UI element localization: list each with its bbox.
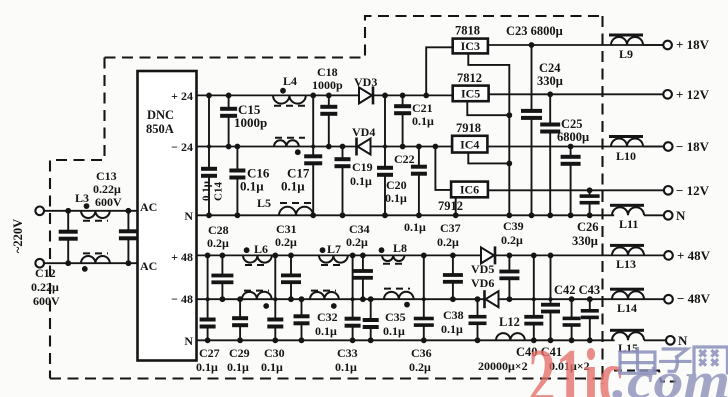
svg-text:C13: C13	[96, 169, 117, 183]
label 7812	[457, 71, 482, 85]
capacitor C33	[345, 253, 361, 344]
svg-text:C24: C24	[539, 61, 561, 75]
svg-text:C12: C12	[35, 266, 56, 280]
label L4	[283, 74, 297, 88]
svg-text:N: N	[184, 334, 193, 348]
pin label N bottom	[184, 334, 193, 348]
label C35	[383, 310, 406, 338]
terminal +18V	[663, 41, 672, 50]
label C40 C41	[516, 345, 562, 359]
label L3	[75, 191, 89, 205]
label L7	[327, 242, 341, 256]
svg-text:VD6: VD6	[471, 276, 494, 290]
svg-text:0.1μ: 0.1μ	[385, 191, 407, 205]
svg-text:7812: 7812	[457, 71, 482, 85]
svg-text:C38: C38	[443, 308, 464, 322]
capacitor C41	[541, 253, 560, 344]
svg-text:C31: C31	[276, 222, 297, 236]
svg-text:VD3: VD3	[354, 75, 377, 89]
label L6	[254, 242, 268, 256]
capacitor C31	[281, 253, 301, 303]
svg-text:C18: C18	[317, 65, 338, 79]
label 7918	[456, 121, 481, 135]
terminal -18V	[664, 142, 673, 151]
label C26	[572, 220, 599, 248]
svg-text:C23 6800μ: C23 6800μ	[506, 24, 563, 38]
svg-text:0.1μ: 0.1μ	[196, 360, 218, 374]
wire IC5 ground	[467, 101, 512, 118]
terminal -12V	[664, 186, 673, 195]
capacitor C19	[335, 144, 351, 219]
wire +48 rail	[197, 254, 664, 256]
pin label -48	[171, 292, 193, 306]
wire N bottom rail	[197, 339, 615, 341]
svg-text:C25: C25	[561, 117, 583, 131]
svg-text:VD4: VD4	[352, 125, 375, 139]
svg-text:330μ: 330μ	[572, 234, 598, 248]
svg-text:C35: C35	[385, 310, 406, 324]
pin label AC upper	[140, 200, 157, 214]
label C36	[409, 346, 432, 374]
svg-text:600V: 600V	[95, 195, 122, 209]
svg-text:C37: C37	[440, 221, 461, 235]
svg-text:− 18V: − 18V	[676, 139, 710, 154]
label VD4	[352, 125, 375, 139]
label VD3	[354, 75, 377, 89]
label C38	[441, 308, 464, 336]
svg-text:N: N	[676, 208, 686, 223]
label 7912	[438, 199, 463, 213]
svg-text:0.2μ: 0.2μ	[207, 236, 229, 250]
svg-text:0.2μ: 0.2μ	[437, 235, 459, 249]
svg-text:L6: L6	[254, 242, 268, 256]
label N mid	[676, 208, 686, 223]
label N bottom	[678, 333, 688, 348]
svg-text:C42 C43: C42 C43	[554, 283, 600, 297]
label C16	[240, 166, 270, 194]
capacitor C38	[469, 296, 487, 343]
label VD6	[471, 276, 494, 290]
svg-text:IC5: IC5	[461, 87, 480, 101]
wire N mid rail	[197, 214, 615, 216]
wire -24 rail	[197, 146, 453, 148]
label C31	[275, 222, 297, 249]
module DNC 850A box	[138, 71, 197, 361]
capacitor C35	[363, 296, 379, 343]
svg-text:1000p: 1000p	[234, 115, 267, 130]
svg-text:N: N	[184, 209, 193, 223]
label -48V	[677, 291, 711, 306]
capacitor C39	[499, 253, 519, 303]
svg-text:0.1μ: 0.1μ	[227, 360, 249, 374]
wire IC6 input	[433, 144, 452, 190]
label C32	[315, 310, 338, 338]
svg-text:C36: C36	[411, 346, 432, 360]
svg-text:C27: C27	[199, 346, 220, 360]
capacitor C21	[394, 93, 411, 150]
inductor L5 on N rail	[279, 203, 313, 215]
shield enclosure dashed border (left/input section)	[50, 58, 105, 379]
label C25	[557, 117, 589, 144]
svg-text:L8: L8	[393, 241, 407, 255]
svg-text:AC: AC	[140, 259, 157, 273]
wire +24 rail	[197, 94, 453, 96]
capacitor C14	[201, 93, 217, 219]
capacitor C29	[232, 296, 248, 343]
wire AC lower	[44, 262, 138, 264]
svg-text:0.22μ: 0.22μ	[31, 280, 59, 294]
shield enclosure dashed border (bottom edge)	[50, 377, 605, 379]
label ~220V	[11, 219, 25, 253]
svg-text:0.2μ: 0.2μ	[346, 235, 368, 249]
svg-text:C21: C21	[412, 101, 433, 115]
svg-text:0.2μ: 0.2μ	[501, 233, 523, 247]
label C33	[335, 346, 358, 374]
label 7818	[455, 24, 480, 38]
inductor L10	[609, 135, 643, 163]
choke L7 lower winding	[310, 291, 339, 309]
svg-text:0.1μ: 0.1μ	[350, 174, 372, 188]
wire IC4 ground	[468, 153, 512, 167]
choke L3 upper winding	[81, 203, 110, 221]
op-amp-regulator IC4 7918	[452, 136, 487, 153]
capacitor C12	[59, 208, 78, 266]
inductor L14	[610, 288, 644, 315]
svg-text:C32: C32	[317, 310, 338, 324]
label C12 value	[31, 266, 60, 308]
watermark 21ic.com	[528, 334, 728, 397]
svg-text:7912: 7912	[438, 199, 463, 213]
label L8	[393, 241, 407, 255]
svg-text:IC3: IC3	[461, 39, 480, 53]
svg-text:L14: L14	[617, 301, 637, 315]
inductor L11	[610, 204, 644, 231]
svg-text:IC4: IC4	[460, 137, 479, 151]
svg-text:C34: C34	[349, 222, 370, 236]
svg-text:0.1μ: 0.1μ	[261, 360, 283, 374]
wire +12V line	[489, 93, 664, 95]
label VD5	[471, 262, 494, 276]
label -18V	[676, 139, 710, 154]
inductor L12 on N rail	[496, 333, 525, 340]
svg-text:− 12V: − 12V	[676, 183, 710, 198]
label C29	[227, 346, 250, 374]
terminal N bottom	[666, 336, 675, 345]
op-amp-regulator IC5 7812	[453, 86, 489, 102]
svg-text:.com: .com	[612, 353, 728, 397]
svg-text:C28: C28	[208, 223, 229, 237]
pin label AC lower	[140, 259, 157, 273]
diode VD4	[357, 138, 371, 156]
diode VD6	[485, 290, 499, 308]
svg-text:0.1μ: 0.1μ	[412, 114, 434, 128]
label C39	[501, 219, 524, 247]
svg-text:L13: L13	[616, 257, 636, 271]
label C19	[350, 160, 373, 188]
svg-text:7918: 7918	[456, 121, 481, 135]
svg-text:L4: L4	[283, 74, 297, 88]
label C13 value	[93, 169, 122, 209]
label C21	[412, 101, 434, 128]
svg-text:+ 24: + 24	[171, 89, 193, 103]
terminal +12V	[663, 90, 672, 99]
label C22	[394, 152, 426, 234]
svg-text:7818: 7818	[455, 24, 480, 38]
terminal +48V	[664, 251, 673, 260]
wire IC3 ground	[468, 53, 512, 218]
svg-text:1000p: 1000p	[312, 78, 343, 92]
svg-text:L3: L3	[75, 191, 89, 205]
svg-text:0.1μ: 0.1μ	[404, 220, 426, 234]
svg-text:+ 12V: + 12V	[676, 87, 710, 102]
svg-text:C14: C14	[213, 182, 225, 201]
pin label N mid	[184, 209, 193, 223]
svg-text:− 48: − 48	[171, 292, 193, 306]
capacitor C34	[353, 253, 373, 303]
svg-text:C30: C30	[264, 346, 285, 360]
label C17	[281, 166, 310, 194]
svg-text:L9: L9	[619, 47, 633, 61]
terminal ~220V line input lower	[35, 259, 44, 268]
capacitor C23	[521, 42, 542, 218]
svg-text:L7: L7	[327, 242, 341, 256]
label +48V	[677, 248, 711, 263]
svg-text:20000μ×2: 20000μ×2	[478, 359, 528, 373]
svg-text:0.1μ: 0.1μ	[383, 324, 405, 338]
diode VD5	[481, 246, 495, 264]
capacitor C28	[211, 253, 233, 303]
inductor L15	[610, 329, 644, 355]
capacitor C43	[581, 296, 599, 343]
svg-text:+ 48: + 48	[171, 250, 193, 264]
label C30	[261, 346, 285, 374]
capacitor C13	[119, 208, 138, 266]
choke L7 upper winding	[319, 247, 348, 265]
svg-text:C26: C26	[577, 220, 599, 234]
inductor L13	[610, 244, 644, 271]
choke L4 lower winding	[274, 138, 305, 155]
svg-text:IC6: IC6	[460, 183, 479, 197]
label C28	[207, 223, 229, 250]
wire L10 to terminal	[643, 146, 664, 148]
svg-text:21ic: 21ic	[528, 334, 623, 397]
choke L6 lower winding	[242, 291, 272, 309]
capacitor C32	[294, 296, 310, 343]
choke L4 upper winding	[273, 88, 306, 106]
capacitor C30	[267, 253, 283, 344]
capacitor C16	[229, 144, 245, 219]
capacitor C42	[563, 296, 581, 343]
shield enclosure dashed border (right edge)	[601, 16, 603, 384]
svg-text:C29: C29	[229, 346, 250, 360]
svg-text:VD5: VD5	[471, 262, 494, 276]
svg-text:6800μ: 6800μ	[557, 130, 589, 144]
capacitor C18	[320, 93, 337, 150]
svg-text:+ 18V: + 18V	[676, 37, 710, 52]
label C14 vertical	[201, 180, 225, 201]
svg-text:C19: C19	[352, 160, 373, 174]
svg-text:0.2μ: 0.2μ	[409, 360, 431, 374]
inductor L9	[609, 34, 643, 62]
label C34	[346, 222, 370, 249]
op-amp-regulator IC6 7912	[451, 182, 488, 198]
choke L3 lower winding	[81, 253, 110, 271]
capacitor C20	[377, 93, 393, 219]
svg-text:AC: AC	[140, 200, 157, 214]
svg-text:L10: L10	[616, 149, 636, 163]
svg-text:C20: C20	[386, 178, 407, 192]
wire L9 to terminal	[643, 44, 663, 46]
svg-text:L12: L12	[499, 315, 520, 329]
svg-text:~220V: ~220V	[11, 219, 25, 253]
label -12V	[676, 183, 710, 198]
label C42 C43	[554, 283, 600, 297]
svg-text:L11: L11	[619, 217, 638, 231]
choke L8 upper winding	[379, 247, 405, 263]
svg-text:0.1μ: 0.1μ	[240, 179, 264, 194]
wire -12V line	[488, 189, 664, 191]
svg-text:0.22μ: 0.22μ	[93, 182, 121, 196]
wire crossing blobs (scan artifacts)	[206, 145, 553, 302]
capacitor C27	[200, 253, 216, 344]
label +18V	[676, 37, 710, 52]
terminal ~220V line input upper	[35, 207, 44, 216]
svg-text:C33: C33	[337, 346, 358, 360]
svg-text:− 48V: − 48V	[677, 291, 711, 306]
svg-text:330μ: 330μ	[537, 74, 563, 88]
label C24	[537, 61, 563, 88]
pin label +48	[171, 250, 193, 264]
label C27	[196, 346, 220, 374]
label C20	[385, 178, 407, 205]
wire L15 to terminal	[644, 339, 666, 341]
svg-text:0.1μ: 0.1μ	[281, 179, 305, 194]
wire L11 to terminal	[644, 214, 664, 216]
svg-text:L5: L5	[257, 196, 271, 210]
svg-text:0.1μ: 0.1μ	[315, 324, 337, 338]
shield enclosure dashed border (top edge)	[105, 16, 603, 58]
terminal -48V	[664, 295, 673, 304]
label C40 C41 values	[478, 359, 590, 373]
watermark 电子网	[620, 347, 727, 375]
pin label -24	[171, 140, 193, 154]
label C18	[312, 65, 343, 92]
svg-text:0.2μ: 0.2μ	[275, 235, 297, 249]
pin label +24	[171, 89, 193, 103]
wire IC6 ground	[453, 197, 459, 218]
svg-text:0.1μ: 0.1μ	[441, 322, 463, 336]
diode VD3	[359, 86, 373, 104]
choke L6 upper winding	[243, 247, 272, 265]
label L12	[499, 315, 520, 329]
wire -48 rail	[197, 298, 664, 300]
svg-text:0.1μ: 0.1μ	[201, 180, 213, 201]
capacitor C24	[540, 91, 560, 218]
capacitor C37	[443, 253, 463, 303]
svg-text:C39: C39	[503, 219, 524, 233]
svg-text:DNC: DNC	[147, 108, 174, 122]
shield enclosure dashed border (bottom-right jog)	[614, 371, 676, 382]
wire AC upper	[44, 210, 138, 212]
label C37	[437, 221, 461, 249]
svg-text:C22: C22	[394, 152, 415, 166]
capacitor C17	[304, 93, 322, 219]
svg-text:850A: 850A	[146, 122, 174, 136]
capacitor C36	[414, 253, 434, 344]
svg-text:− 24: − 24	[171, 140, 193, 154]
capacitor C40	[524, 253, 543, 344]
label C23	[506, 24, 563, 38]
label +12V	[676, 87, 710, 102]
svg-text:0.1μ: 0.1μ	[335, 360, 357, 374]
label L5	[257, 196, 271, 210]
terminal N mid	[664, 211, 673, 220]
choke L8 lower winding	[384, 289, 414, 308]
label C15	[234, 102, 267, 130]
wire -18V line	[487, 146, 663, 148]
capacitor C25	[561, 144, 581, 219]
wire +18V line	[488, 44, 663, 46]
wire IC3 input	[423, 47, 452, 98]
capacitor C15	[220, 93, 237, 150]
svg-text:N: N	[678, 333, 688, 348]
svg-text:+ 48V: + 48V	[677, 248, 711, 263]
op-amp-regulator IC3 7818	[453, 39, 488, 54]
svg-text:600V: 600V	[33, 294, 60, 308]
capacitor C22	[411, 144, 427, 219]
capacitor C26	[580, 187, 600, 218]
